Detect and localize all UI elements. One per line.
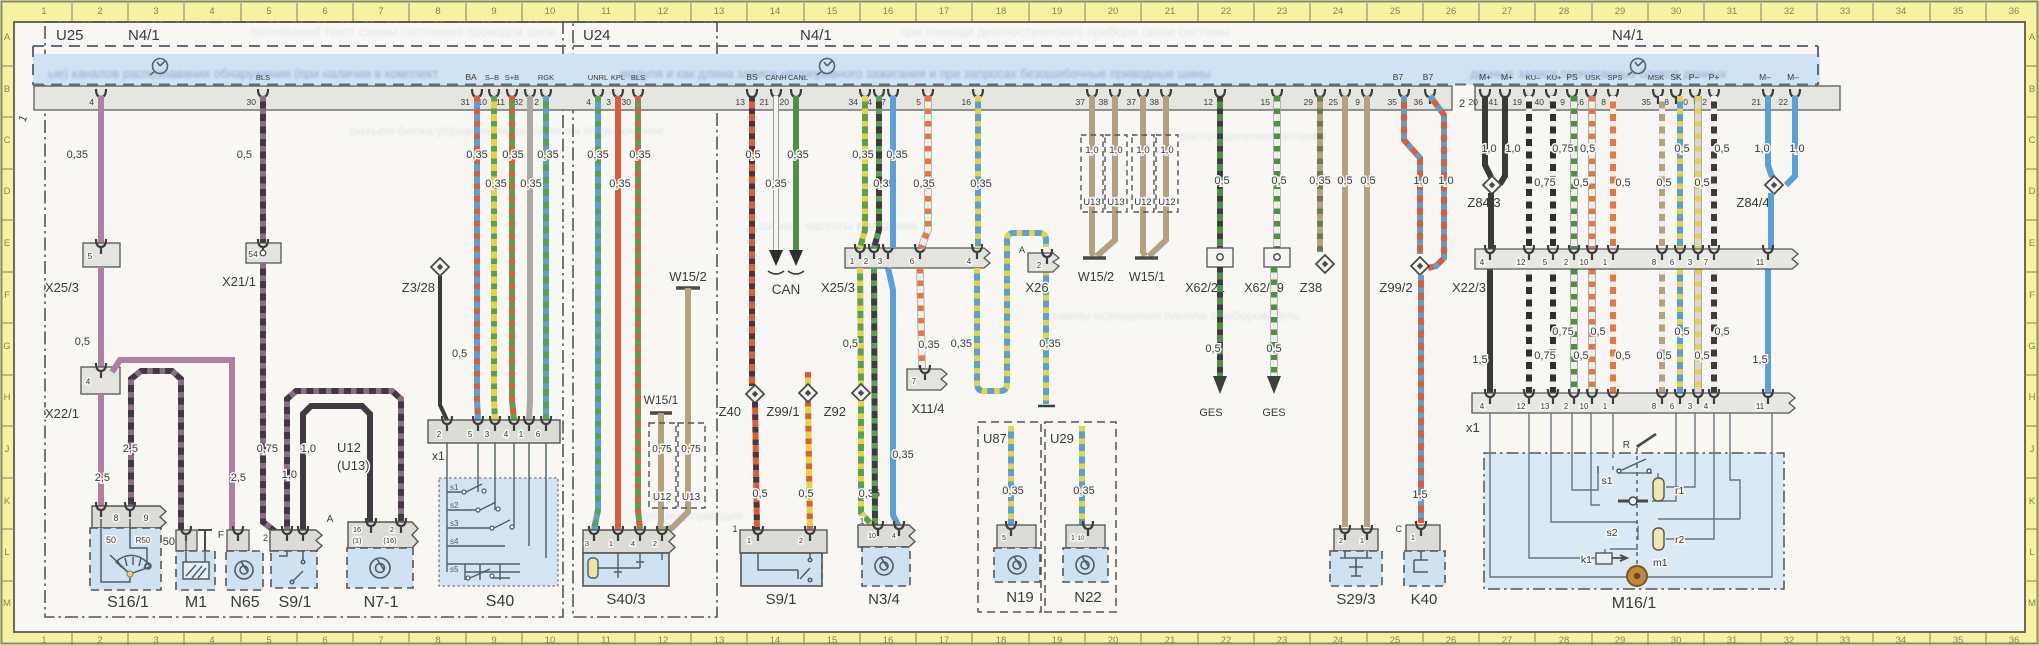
svg-text:0,35: 0,35 [1002,485,1023,497]
N22 body [1063,548,1108,582]
svg-text:26: 26 [1446,6,1457,17]
svg-text:0,5: 0,5 [1573,350,1588,362]
svg-text:0,75: 0,75 [652,444,672,455]
wire 16 blue/yellow 0,35 [975,96,981,248]
svg-text:k1: k1 [1581,554,1592,566]
svg-text:0,35: 0,35 [537,149,558,161]
svg-text:W15/2: W15/2 [1078,270,1114,284]
svg-text:0,5: 0,5 [1590,326,1605,338]
svg-text:Z40: Z40 [719,404,741,419]
svg-text:1: 1 [1603,258,1608,267]
svg-text:2: 2 [534,97,539,107]
wire column x=1553 lower [1550,269,1556,393]
svg-text:s2: s2 [450,501,459,510]
svg-text:5: 5 [468,430,473,439]
svg-text:1,0: 1,0 [1085,145,1098,156]
svg-text:CANL: CANL [788,73,808,82]
connector bar X25/3 [845,248,990,268]
svg-text:Z84/3: Z84/3 [1467,195,1500,210]
wire white/red 0,35 to X11/4 [920,268,922,369]
svg-text:2: 2 [1339,536,1343,545]
svg-text:1,0: 1,0 [1481,143,1496,155]
svg-text:27: 27 [1502,635,1513,645]
N19 body [994,548,1040,582]
svg-text:E: E [4,238,10,249]
S16/1 body [90,528,161,590]
svg-text:0,5: 0,5 [1360,175,1375,187]
connector X22/1 [81,367,120,394]
svg-text:0,35: 0,35 [67,149,88,161]
svg-text:0,35: 0,35 [886,149,907,161]
wire 29 brown 0,35 [1317,96,1323,252]
control unit box U25 [45,22,563,617]
N3/4 body [862,547,910,586]
clock symbol on N4/1 band [150,59,168,76]
svg-text:MSK: MSK [1648,73,1664,82]
svg-text:4: 4 [86,377,91,387]
wire column x=1574 lower [1570,269,1578,393]
wire black 2,5 S16/1 pin9 to M1 pin50 [131,371,181,532]
wire column x=1714 lower [1711,269,1717,393]
svg-text:0,35: 0,35 [1073,485,1094,497]
N7-1 body [347,548,413,588]
wire B7 red/blue 1,0 (pin35) [1404,96,1420,254]
wire CAN-L green 0,35 [793,96,799,252]
svg-text:0,5: 0,5 [452,348,467,360]
svg-text:13: 13 [714,6,725,17]
svg-text:3: 3 [585,539,589,548]
svg-text:0,35: 0,35 [852,149,873,161]
wire column x=1592 lower [1588,269,1596,393]
svg-text:H: H [4,392,11,403]
svg-text:U12: U12 [337,440,361,455]
GES arrow [1213,376,1227,394]
connector bar X22/3 [1475,249,1798,269]
svg-text:8: 8 [1652,258,1657,267]
svg-text:1,5: 1,5 [1412,489,1427,501]
wire green/yellow 0,35 to N3/4 [861,401,876,527]
svg-text:12: 12 [1517,402,1526,411]
svg-text:2: 2 [1564,402,1569,411]
svg-text:21: 21 [1752,97,1762,107]
svg-text:UNRL: UNRL [588,73,608,82]
svg-text:4: 4 [1480,402,1485,411]
wire UNRL blue/green 0,35 [594,96,598,530]
svg-text:0,5: 0,5 [1615,177,1630,189]
wire brown to ground W15/2 b [1097,214,1115,256]
svg-text:30: 30 [247,97,257,107]
svg-text:K: K [4,496,11,507]
connector X62/21 [1207,248,1233,267]
svg-text:BA: BA [465,72,477,82]
connector sleeve Z38 [1316,255,1334,273]
svg-text:0,35: 0,35 [609,178,630,190]
svg-text:1,0: 1,0 [1789,143,1804,155]
svg-text:0,75: 0,75 [257,443,278,455]
connector sleeve Z40 [746,385,764,403]
svg-text:20: 20 [1469,97,1479,107]
svg-text:X22/3: X22/3 [1452,280,1486,295]
svg-text:36: 36 [2009,635,2020,645]
svg-text:0,5: 0,5 [843,338,858,350]
svg-text:1,0: 1,0 [1136,145,1149,156]
wire blue/yellow 0,35 to N19 [1008,426,1014,527]
svg-text:4: 4 [1704,402,1709,411]
svg-text:B: B [2029,84,2035,95]
svg-text:1,0: 1,0 [1160,145,1173,156]
svg-text:2: 2 [1459,98,1465,110]
svg-text:13: 13 [1541,402,1550,411]
svg-text:8: 8 [113,513,118,523]
svg-text:2: 2 [390,525,394,534]
svg-text:Z99/2: Z99/2 [1379,280,1412,295]
svg-text:31: 31 [1727,635,1738,645]
svg-text:0,5: 0,5 [1615,350,1630,362]
svg-text:R50: R50 [136,536,151,545]
wire blue 0,35 to N3/4 pin 4 [888,268,898,525]
wire white/green 0,5 to GES [1270,267,1278,376]
svg-text:1,0: 1,0 [1413,175,1428,187]
svg-text:1: 1 [747,536,751,545]
wire blue to X22/3 pin 11 [1768,193,1774,249]
connector sleeve Z92 [852,384,870,402]
svg-text:0,5: 0,5 [798,488,813,500]
svg-text:USK: USK [1585,73,1600,82]
svg-text:5: 5 [1002,535,1006,542]
svg-text:A: A [1019,245,1025,255]
svg-text:2: 2 [864,257,869,266]
svg-text:25: 25 [1390,6,1401,17]
svg-text:0,5: 0,5 [1714,326,1729,338]
svg-text:RGK: RGK [538,73,554,82]
svg-text:Z3/28: Z3/28 [402,280,435,295]
svg-text:A: A [4,32,11,43]
svg-text:28: 28 [1559,6,1570,17]
svg-text:U13: U13 [1107,197,1124,208]
svg-text:38: 38 [1150,97,1160,107]
ground W15/1 [1135,256,1158,260]
svg-text:10: 10 [1580,402,1589,411]
svg-text:15: 15 [827,6,838,17]
wire column x=1592 upper [1588,96,1596,249]
S40/3 body [583,553,669,586]
CAN arrows [769,250,803,266]
wire black/green to N3/4 pin 10 [874,268,875,525]
svg-text:16: 16 [353,525,361,534]
svg-text:5: 5 [266,635,271,645]
svg-text:L: L [2029,547,2034,558]
svg-text:BLS: BLS [256,73,270,82]
svg-text:4: 4 [892,533,896,540]
svg-text:M16/1: M16/1 [1612,595,1657,612]
svg-text:21: 21 [1165,6,1176,17]
svg-text:9: 9 [491,635,496,645]
svg-text:S40: S40 [486,593,515,610]
svg-text:U25: U25 [56,27,84,44]
svg-text:1,0: 1,0 [1505,143,1520,155]
svg-text:1,0: 1,0 [282,469,297,481]
svg-text:16: 16 [883,635,894,645]
svg-text:19: 19 [1052,635,1063,645]
svg-text:17: 17 [939,6,950,17]
splice box U29 [1045,422,1116,612]
svg-text:0,35: 0,35 [485,178,506,190]
svg-text:0,35: 0,35 [1309,175,1330,187]
svg-text:2: 2 [97,6,102,17]
svg-text:6: 6 [322,6,327,17]
svg-text:Z38: Z38 [1300,280,1322,295]
wire 12 green/black 0,5 [1217,96,1223,248]
wire violet branch 2,5 to N65 [112,360,232,532]
svg-text:1,5: 1,5 [1752,354,1767,366]
svg-text:s4: s4 [450,537,459,546]
svg-text:X62/19: X62/19 [1244,281,1284,295]
svg-text:0,5: 0,5 [1205,343,1220,355]
svg-text:N65: N65 [230,594,259,611]
svg-text:3: 3 [485,430,490,439]
S40/3 pin bar [583,530,675,553]
svg-text:распределение питания: распределение питания [1180,128,1325,143]
wire blue/yellow 0,35 to N22 [1079,426,1085,527]
svg-text:KU–: KU– [1526,73,1541,82]
wire BS red/black 0,5 [749,96,755,386]
wire S-B yellow/green 0,35 [494,96,495,420]
wire yellow/red 0,5 to S9/1 pin 2 [808,401,810,530]
svg-text:10: 10 [1580,258,1589,267]
svg-text:W15/1: W15/1 [644,393,679,407]
svg-text:25: 25 [1390,635,1401,645]
svg-text:11: 11 [1756,402,1765,411]
wire BA blue/red 0,35 [477,96,478,420]
splice boxes U13 U13 U12 U12 [1081,135,1103,212]
wire M- blue 1,0 (pin22) [1786,96,1795,185]
svg-text:S–B: S–B [485,73,499,82]
svg-text:2: 2 [1037,261,1042,270]
svg-text:8: 8 [435,635,440,645]
svg-text:1,0: 1,0 [301,443,316,455]
wire blue/yellow loop over X26 [977,233,1046,391]
svg-text:X21/1: X21/1 [222,274,256,289]
svg-text:2: 2 [437,430,442,439]
wire 34 green/yellow 0,35 [860,96,865,248]
svg-text:F: F [4,290,10,301]
svg-text:0,5: 0,5 [745,149,760,161]
wire S+B green/red 0,35 [512,96,514,420]
connector sleeve Z99/1 [799,384,817,402]
wire 0,5 Z3/28 to x1 pin2 [440,276,447,420]
svg-text:0,5: 0,5 [1674,143,1689,155]
svg-text:13: 13 [714,635,725,645]
svg-text:8: 8 [1652,402,1657,411]
svg-text:22: 22 [1779,97,1789,107]
svg-text:F: F [2029,290,2035,301]
svg-text:17: 17 [939,635,950,645]
svg-text:SPS: SPS [1607,73,1622,82]
svg-text:16: 16 [962,97,972,107]
svg-text:s1: s1 [450,483,459,492]
svg-text:25: 25 [1329,97,1339,107]
wire yellow/red stub above Z99/1 [805,372,811,385]
svg-text:3: 3 [153,6,158,17]
svg-text:1: 1 [1071,535,1075,542]
connector sleeve Z3/28 [431,258,449,276]
svg-text:2: 2 [653,539,657,548]
svg-text:S9/1: S9/1 [766,591,797,608]
svg-text:P+: P+ [1709,72,1720,82]
svg-text:W15/2: W15/2 [669,269,707,284]
svg-text:ые) каналов распознавания обна: ые) каналов распознавания обнаружения (п… [48,67,438,81]
svg-text:Z99/1: Z99/1 [766,404,799,419]
S16/1 pin bar [92,506,166,528]
svg-text:29: 29 [1304,97,1314,107]
svg-text:B7: B7 [1393,72,1404,82]
svg-text:1: 1 [1411,533,1415,542]
svg-text:4: 4 [89,97,94,107]
svg-text:M–: M– [1787,72,1799,82]
svg-text:18: 18 [996,6,1007,17]
module N4/1 dashed boundary with blue band [33,54,1820,85]
svg-text:12: 12 [1517,258,1526,267]
wire column x=1714 upper [1711,96,1717,249]
svg-text:32: 32 [1784,635,1795,645]
svg-text:0,5: 0,5 [1656,177,1671,189]
connector rail of N4/1 (left part) [34,86,1452,110]
svg-text:H: H [2029,392,2036,403]
svg-text:0,5: 0,5 [1573,177,1588,189]
svg-text:11: 11 [1756,258,1765,267]
svg-text:s3: s3 [450,519,459,528]
svg-text:Z84/4: Z84/4 [1736,195,1769,210]
wire green/yellow 0,5 to Z92 [860,268,861,385]
svg-text:50: 50 [106,535,116,545]
svg-text:X11/4: X11/4 [911,401,944,416]
splice box U87 [978,422,1041,612]
svg-text:3: 3 [1688,258,1693,267]
clock symbol on N4/1 band [817,59,835,76]
svg-text:m1: m1 [1653,557,1668,569]
svg-text:C: C [2029,135,2036,146]
control unit N19 [997,525,1036,548]
connector bar x1 of M16/1 [1472,393,1795,413]
svg-text:0,35: 0,35 [466,149,487,161]
svg-text:M: M [3,598,11,609]
wire gray 1,0 S9/1 to N7-1 pin 16(1) [303,406,370,532]
connector X62/19 [1264,248,1290,267]
svg-text:N22: N22 [1074,589,1102,606]
M1 body [176,551,215,590]
svg-text:21: 21 [1165,635,1176,645]
wire column x=1613 lower [1610,269,1616,393]
svg-text:CANH: CANH [765,73,786,82]
svg-text:0,35: 0,35 [970,178,991,190]
svg-text:0,35: 0,35 [765,178,786,190]
N3/4 pin bar [858,525,915,547]
svg-text:пзлreleased текст схемы состоя: пзлreleased текст схемы состояния провод… [250,24,556,39]
svg-text:19: 19 [1052,6,1063,17]
S9/1 pin bar [270,530,322,551]
svg-text:0,5: 0,5 [1674,326,1689,338]
svg-text:4: 4 [209,6,214,17]
wire column x=1698 upper [1694,96,1702,249]
svg-text:0,35: 0,35 [892,449,913,461]
svg-text:0,75: 0,75 [1534,177,1555,189]
wire black 0,75 X21/1 to S9/1 pin 1 [263,263,287,532]
wire column x=1662 lower [1659,269,1665,393]
svg-text:N7-1: N7-1 [364,594,399,611]
svg-text:31: 31 [461,97,471,107]
svg-text:36: 36 [1414,97,1424,107]
svg-text:32: 32 [1784,6,1795,17]
svg-text:30: 30 [622,97,632,107]
svg-text:1,0: 1,0 [1754,143,1769,155]
svg-text:6: 6 [322,635,327,645]
svg-text:15: 15 [827,635,838,645]
svg-text:s5: s5 [450,565,459,574]
wire brown 1,0 x=1166 [1163,96,1169,214]
svg-text:1: 1 [41,6,46,17]
svg-text:24: 24 [1333,6,1344,17]
svg-text:CAN: CAN [772,282,801,297]
svg-text:x1: x1 [1466,420,1480,435]
svg-text:M+: M+ [1479,72,1491,82]
svg-text:C: C [1396,524,1403,534]
svg-text:2: 2 [1564,258,1569,267]
svg-text:A: A [327,514,334,525]
svg-text:PS: PS [1566,72,1578,82]
svg-text:N4/1: N4/1 [128,27,160,44]
wire red/black 0,5 to S9/1 pin 1 [755,402,757,530]
svg-text:6: 6 [536,430,541,439]
svg-text:лампы освещения панели приборо: лампы освещения панели приборов цепь [1050,308,1301,323]
wire M+ black 1,0 (pin20) [1485,96,1491,177]
svg-text:0,5: 0,5 [1271,175,1286,187]
svg-text:0,75: 0,75 [1552,143,1573,155]
svg-text:P–: P– [1689,72,1700,82]
wire brown 1,0 x=1115 [1112,96,1118,214]
svg-text:0,5: 0,5 [752,488,767,500]
svg-text:0,5: 0,5 [1694,177,1709,189]
wire column x=1662 upper [1659,96,1665,249]
svg-text:33: 33 [1840,6,1851,17]
svg-text:0,35: 0,35 [913,178,934,190]
svg-text:16: 16 [883,6,894,17]
svg-text:9: 9 [1355,97,1360,107]
svg-text:R: R [1623,440,1630,451]
svg-text:19: 19 [1513,97,1523,107]
connector sleeve Z99/2 [1411,257,1429,275]
svg-text:20: 20 [1108,6,1119,17]
svg-text:r2: r2 [1675,534,1684,546]
svg-text:0,35: 0,35 [787,149,808,161]
svg-text:2: 2 [263,533,268,543]
svg-text:1,0: 1,0 [1438,175,1453,187]
control unit box U24 [573,22,717,617]
wire brown 1,0 x=1143 [1140,96,1146,214]
svg-text:1,5: 1,5 [1472,354,1487,366]
svg-text:F: F [218,530,224,541]
svg-text:S29/3: S29/3 [1336,591,1375,608]
svg-text:10: 10 [868,533,876,540]
svg-text:s2: s2 [1606,527,1617,539]
svg-text:U13: U13 [682,492,701,503]
svg-text:r1: r1 [1675,485,1684,497]
S9/1 body [271,551,317,588]
svg-text:0,35: 0,35 [587,149,608,161]
S9/1 body [741,553,822,586]
wire column x=1680 upper [1677,96,1683,249]
svg-text:11: 11 [496,97,505,107]
pin forks and numbers on N4/1 rails [89,89,1800,107]
